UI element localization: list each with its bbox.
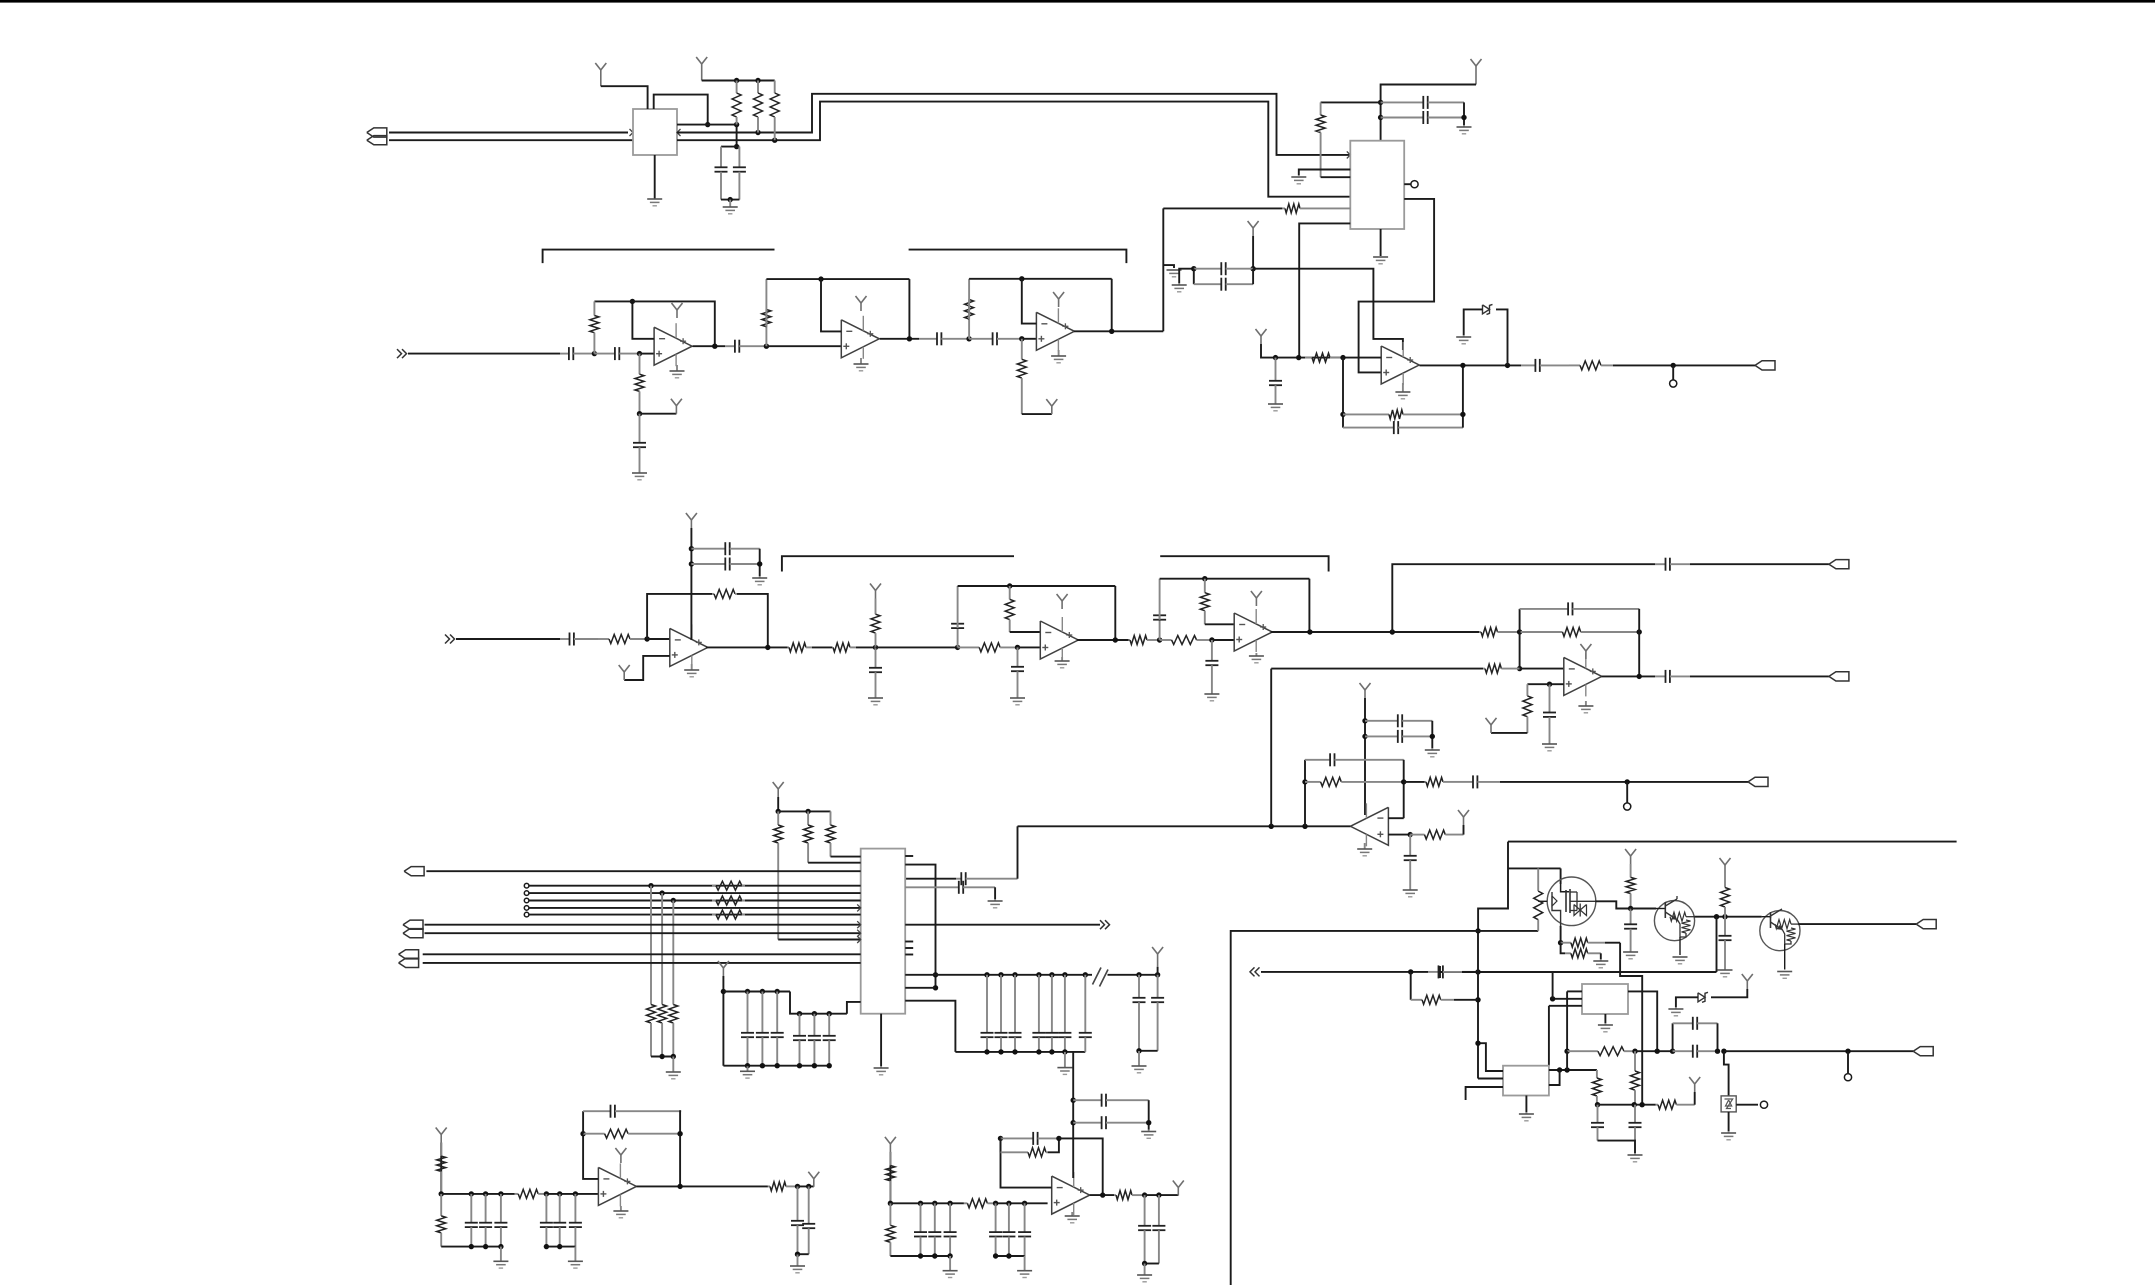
resistor R26 — [1483, 664, 1519, 673]
junction n6 — [644, 636, 649, 641]
junction k2t4 — [1006, 1201, 1011, 1206]
wire op7 plus stub — [1550, 683, 1564, 685]
junction n17 — [1155, 972, 1160, 977]
junction k2b1 — [932, 1253, 937, 1258]
capacitor C18 — [691, 558, 759, 571]
cap bracket up — [1672, 1023, 1674, 1051]
junction R2 on pinB wire — [755, 130, 760, 135]
wire Q2 collector — [1695, 916, 1762, 918]
wire VCC12 to zener — [1711, 989, 1747, 997]
junction pull1 — [648, 883, 653, 888]
wire n12b to op7 minus — [1520, 668, 1564, 670]
ground k1g2 — [568, 1247, 583, 1269]
wire capA loop — [1193, 269, 1195, 285]
stub circle b3 — [524, 898, 529, 903]
junction n15 — [1408, 832, 1413, 837]
resistor R36 — [712, 910, 745, 919]
junction bankL b1 — [745, 1063, 750, 1068]
bankL top rail — [723, 991, 790, 993]
junction k1t3 — [544, 1191, 549, 1196]
capacitor C57 — [791, 1186, 804, 1254]
top border bar — [0, 0, 2155, 3]
wire minus out row — [1404, 781, 1425, 783]
stub TP2 — [1626, 782, 1628, 803]
wire to connector OUT1 — [1613, 364, 1755, 366]
stub U8 p3 — [1549, 1005, 1582, 1007]
junction fb2 minus — [818, 276, 823, 281]
wire fb3 right vert — [1111, 279, 1113, 332]
resistor R52 — [1001, 1148, 1048, 1157]
wire fb3 minus vert — [1022, 279, 1037, 324]
connector J4 pin1 — [399, 950, 419, 959]
power symbol VCC12 — [1742, 974, 1753, 989]
wire n12 to minus row — [1519, 632, 1521, 669]
junction fb9 top — [580, 1131, 585, 1136]
resistor R43 — [1656, 1100, 1695, 1109]
junction C62 join — [1146, 1120, 1151, 1125]
wire row b-d — [1635, 1050, 1673, 1052]
wire U7 to bank vertical — [905, 865, 935, 988]
vert U8 p3 down — [1548, 1006, 1550, 1066]
wire k1 lower rail2 — [546, 1246, 575, 1248]
stub TP3 — [1847, 1051, 1849, 1073]
junction bankR b5 — [1049, 1049, 1054, 1054]
capacitor C59 — [1001, 1132, 1059, 1145]
resistor R12 — [965, 279, 974, 339]
capacitor C29 — [1365, 730, 1432, 743]
wire cap pair bottom rail — [721, 199, 739, 201]
cap bracket down — [1717, 1023, 1719, 1051]
capacitor C22 — [1205, 640, 1218, 692]
junction C3/C4 — [1461, 115, 1466, 120]
resistor R13 — [1017, 339, 1026, 414]
bankL step — [790, 992, 847, 1014]
resistor R20 — [1005, 586, 1014, 632]
wire U7 bottom stub — [880, 1014, 882, 1066]
ground C33 — [1403, 888, 1418, 897]
resistor k1R1 — [437, 1143, 446, 1194]
stub diode box bottom — [1728, 1112, 1730, 1131]
wire fb2 minus vert — [821, 279, 841, 331]
capacitor C20 — [1011, 647, 1024, 696]
junction capA left — [1191, 266, 1196, 271]
power symbol V+ U5C — [1251, 591, 1262, 606]
wire src down2 — [1561, 943, 1565, 954]
junction n5 — [1019, 336, 1024, 341]
junction U11 out — [1100, 1192, 1105, 1197]
wire R16-R17 — [812, 646, 832, 648]
junction U1 pin2/pinA — [705, 122, 710, 127]
ground U2 bottom — [1373, 257, 1388, 264]
power symbol VCC8 — [773, 782, 784, 797]
wire zener loop — [1496, 309, 1508, 365]
junction bankR b4 — [1036, 1049, 1041, 1054]
op-amp U6A — [1564, 653, 1602, 696]
resistor R29 — [1425, 777, 1460, 786]
wire U6A out — [1602, 675, 1656, 677]
wire J1.2 to U1 — [389, 139, 633, 141]
wire U3 output row — [1420, 364, 1522, 366]
capacitor C62 — [1073, 1094, 1149, 1107]
junction fb5 R — [1007, 583, 1012, 588]
resistor R33 — [826, 811, 835, 856]
junction fb1 top — [630, 299, 635, 304]
power symbol VCC13 — [1625, 849, 1636, 864]
wire n14 left — [1527, 683, 1549, 685]
test point TP3 — [1844, 1074, 1851, 1081]
capacitor C5 — [1194, 262, 1253, 275]
resistor R38 — [658, 893, 667, 1056]
ground U5C — [1249, 653, 1264, 663]
capacitor C50 — [1673, 1045, 1718, 1058]
stub U7 974 — [905, 974, 935, 976]
bundle wire b5 — [529, 914, 861, 916]
wire row f to diode box — [1724, 1051, 1729, 1096]
junction bankL t2 — [760, 989, 765, 994]
junction pull rail b — [659, 1054, 664, 1059]
wire capA left branch — [1179, 269, 1194, 283]
test point TP2 — [1624, 803, 1631, 810]
capacitor k2C5 — [1018, 1203, 1031, 1256]
resistor R47 — [1626, 864, 1635, 909]
power symbol V+ U10 — [615, 1148, 626, 1163]
capacitor C56 — [583, 1105, 681, 1118]
resistor k2R2 — [964, 1199, 996, 1208]
vertical link op8-op7minus — [1270, 669, 1272, 827]
jumper / bus entry symbol — [1093, 968, 1109, 987]
capacitor C19 — [869, 647, 882, 696]
wire rail right — [778, 810, 830, 812]
junction rail R1 — [734, 78, 739, 83]
wire fb1 top left — [594, 300, 632, 302]
junction capB right — [757, 561, 762, 566]
net label bracket 1 — [543, 250, 775, 264]
wire R30 to VREF — [1463, 825, 1465, 835]
wire C57/58 join — [798, 1253, 809, 1255]
wire n3 to op2 plus — [766, 345, 841, 347]
wire zener to gnd — [1676, 997, 1698, 1007]
resistor k2R3 — [886, 1203, 895, 1256]
wire U10 o row — [798, 1185, 814, 1187]
power symbol V+ U5B — [1057, 594, 1068, 609]
wire capB right join — [759, 549, 761, 576]
wire R46 to gnd — [1600, 953, 1602, 959]
wire fb4 right — [737, 594, 768, 648]
capacitor C58 — [802, 1186, 815, 1254]
wire k2 lower rail — [890, 1255, 950, 1257]
resistor R28 — [1305, 777, 1404, 786]
junction n13 — [1637, 629, 1642, 634]
junction U6A out — [1637, 674, 1642, 679]
ground U1 — [647, 199, 662, 206]
op-amp U5A — [670, 624, 708, 667]
pin arrow U7 j31 — [857, 921, 861, 928]
test point TP1 — [1670, 380, 1677, 387]
junction k2t2 — [947, 1201, 952, 1206]
wire C62/63 join — [1148, 1100, 1150, 1129]
junction k2t1 — [932, 1201, 937, 1206]
wire U2 outpin circle — [1404, 183, 1410, 185]
capacitor C10 — [560, 347, 594, 360]
wire fb2 right vert — [908, 279, 910, 339]
capacitor C41 — [1079, 975, 1092, 1052]
wire VCC10 down — [722, 976, 724, 1066]
wire R6 to minus — [1343, 357, 1381, 359]
ground capB — [752, 576, 767, 585]
pin arrow U7 r31 — [857, 936, 861, 943]
vertical gate net — [1477, 931, 1479, 1079]
junction k2t3 — [993, 1201, 998, 1206]
power symbol VCC14 — [1720, 858, 1731, 873]
wire VCC4 to cap pair A — [1252, 236, 1254, 269]
ground U11 — [1065, 1212, 1080, 1223]
wire U4B out — [880, 338, 919, 340]
wire zener to ground — [1464, 309, 1483, 335]
junction bankR t3 — [1012, 972, 1017, 977]
capacitor C54 — [1719, 917, 1732, 968]
ground pull rail — [666, 1057, 681, 1079]
wire VCC1 to U1 top pin — [601, 86, 648, 109]
junction k1t2 — [498, 1191, 503, 1196]
wire pull rail — [651, 1056, 673, 1058]
wire U8 right pin — [1628, 991, 1657, 1051]
wire J4.2 to U7 — [423, 962, 861, 964]
power symbol V+ U6A — [1580, 644, 1591, 659]
wire VCC7 down — [1364, 698, 1366, 815]
wire R4 to U2 pin — [1321, 176, 1351, 178]
wire fb10 minus — [1001, 1138, 1052, 1187]
bankR bottom rail — [955, 1051, 1085, 1053]
wire VCC5 down — [690, 528, 692, 640]
junction Q2c a — [1714, 914, 1719, 919]
connector J1 pin 1 (left input pair) — [367, 128, 387, 137]
junction x1478 a — [1475, 997, 1480, 1002]
wire C27 to OUT3 — [1690, 675, 1829, 677]
junction bankL b4 — [797, 1063, 802, 1068]
junction capC row1 — [1362, 718, 1367, 723]
bankL bottom rail — [723, 1065, 829, 1067]
junction bankR t6 — [1062, 972, 1067, 977]
junction bankR t5 — [1049, 972, 1054, 977]
wire R33 to U7 — [831, 856, 861, 858]
resistor R51 — [768, 1182, 798, 1191]
wire fb10 to out — [1059, 1138, 1103, 1195]
junction bankL b5 — [812, 1063, 817, 1068]
junction n10 — [1157, 637, 1162, 642]
resistor R10 — [635, 354, 644, 414]
stub U9 p3 — [1466, 1087, 1503, 1100]
power symbol VREF1 — [1256, 329, 1267, 344]
junction fb8 left R — [1302, 779, 1307, 784]
wire k2 row — [890, 1202, 964, 1204]
capacitor C26 — [1543, 684, 1556, 742]
power symbol VCC3 — [1471, 59, 1482, 85]
junction k1t0 — [469, 1191, 474, 1196]
wire Q3 collector to OUT6 — [1798, 923, 1916, 925]
junction row c — [1655, 1049, 1660, 1054]
row2 wire — [1598, 1104, 1656, 1106]
vert Q2c to rail — [1716, 917, 1718, 972]
connector J2 — [404, 867, 424, 876]
capacitor C23 — [1153, 579, 1166, 640]
wire n11 to op6 plus — [1212, 639, 1234, 641]
ground D3 — [1668, 1007, 1683, 1016]
junction fb10 tl — [998, 1136, 1003, 1141]
junction C60 gnd — [1142, 1261, 1147, 1266]
resistor R2 — [754, 81, 763, 133]
wire fb9 right vert — [680, 1111, 681, 1186]
wire R45 corner — [1605, 942, 1620, 944]
vert IN3 down — [1410, 972, 1412, 1000]
stub U7 pin r2 — [905, 941, 913, 943]
junction bankR t4 — [1036, 972, 1041, 977]
junction k2b0 — [918, 1253, 923, 1258]
wire fb7 right vert — [1638, 609, 1640, 677]
junction supply row1 — [1071, 1098, 1076, 1103]
stub U8 bottom — [1604, 1014, 1606, 1023]
capacitor k1C4 — [553, 1194, 566, 1247]
ground U2 pin3 — [1291, 177, 1306, 184]
wire Umain pin to cap row — [905, 878, 956, 880]
junction row e — [1715, 1049, 1720, 1054]
net label bracket 4 — [1160, 556, 1328, 571]
wire cap pair top rail — [721, 146, 739, 148]
wire IN3 — [1261, 971, 1428, 973]
junction fb9 R right — [677, 1131, 682, 1136]
net wire U1 pinC long route to U2 — [677, 102, 1350, 197]
junction row d — [1670, 1049, 1675, 1054]
junction U10 o1 — [795, 1184, 800, 1189]
power symbol VCC1 — [595, 63, 606, 86]
ground U9 — [1519, 1112, 1534, 1121]
rail 972 end bar — [1439, 966, 1441, 978]
op-amp U11 — [1052, 1172, 1090, 1215]
wire n2b to VREF — [640, 413, 677, 415]
wire R23 to op6 minus — [1205, 623, 1234, 625]
power symbol VCC5 — [686, 513, 697, 528]
wire to Q2 base — [1631, 908, 1656, 910]
resistor R22 — [1160, 636, 1212, 645]
junction k2b2 — [947, 1253, 952, 1258]
wire J1.1 to U1 — [389, 132, 628, 134]
wire n5 to op3 plus — [1022, 338, 1037, 340]
wire U10 out — [636, 1185, 768, 1187]
junction bankR top b — [933, 985, 938, 990]
wire k2 row2 — [996, 1202, 1048, 1204]
junction bankL t4 — [797, 1011, 802, 1016]
pin arrow U7 j32 — [857, 930, 861, 937]
stub U9 p1 — [1478, 1043, 1503, 1071]
junction rail808 — [805, 809, 810, 814]
stub U8 p2 — [1553, 998, 1582, 1000]
capacitor C48 — [808, 1014, 821, 1066]
junction n12b — [1517, 666, 1522, 671]
wire n6 to op4 minus — [647, 638, 670, 640]
junction U11 o2 — [1156, 1192, 1161, 1197]
junction R1/C1 node — [734, 144, 739, 149]
op-amp U3 — [1381, 342, 1419, 385]
junction U11 o1 — [1142, 1192, 1147, 1197]
power symbol V U11o — [1173, 1181, 1184, 1196]
junction U10 o2 — [806, 1184, 811, 1189]
wire U7 out to >> — [905, 924, 1100, 926]
stub circle b4 — [524, 906, 529, 911]
wire op8 plus stub — [1388, 834, 1410, 836]
power symbol VREF4 — [619, 665, 630, 680]
capacitor k2C4 — [1002, 1203, 1015, 1256]
stub circle b2 — [524, 891, 529, 896]
wire U2 pin6 down to opampA node — [1299, 223, 1350, 357]
capacitor C1 — [715, 147, 728, 200]
junction U4C out — [1109, 329, 1114, 334]
junction U10 out — [677, 1184, 682, 1189]
junction capB row1 — [689, 546, 694, 551]
wire C42/C43 join — [1139, 1050, 1158, 1052]
wire k2 lower rail2 — [996, 1255, 1025, 1257]
capacitor C47 — [793, 1014, 806, 1066]
junction capC row2 — [1362, 734, 1367, 739]
junction R3 on pinC wire — [772, 138, 777, 143]
wire mosfet source to U8 vert — [1620, 943, 1642, 1105]
ground U8 — [1598, 1023, 1613, 1032]
ground C54 — [1718, 968, 1733, 977]
wire tap to OUT2 — [1392, 564, 1655, 632]
ground bankL — [740, 1066, 755, 1078]
junction n9 — [1015, 645, 1020, 650]
wire k1 lower rail — [441, 1246, 501, 1248]
wire cap row to op8 row — [1017, 826, 1019, 878]
wire J3.1 to U7 — [425, 924, 861, 926]
input arrow IN2 — [445, 635, 455, 644]
resistor R34 — [712, 881, 745, 890]
pin arrow U7 b4 — [857, 904, 861, 911]
junction row a — [1564, 1049, 1569, 1054]
capacitor C21 — [951, 586, 964, 647]
input arrow IN3 — [1250, 967, 1260, 976]
capacitor C12 — [725, 340, 766, 353]
wire fb1 top right — [632, 301, 714, 346]
connector J4 pin2 — [399, 958, 419, 967]
capacitor C55 — [1428, 965, 1462, 978]
ground k2g1 — [943, 1256, 958, 1278]
capacitor C39 — [1045, 975, 1058, 1052]
junction n8 — [955, 645, 960, 650]
wire fb6 top — [1160, 578, 1310, 580]
junction k1t1 — [483, 1191, 488, 1196]
ground D1 — [1456, 335, 1471, 344]
power symbol V U10o — [808, 1172, 819, 1187]
capacitor C35 — [981, 975, 994, 1052]
resistor R1 — [732, 81, 741, 125]
junction feedback node A — [1340, 355, 1345, 360]
capacitor C42 — [1133, 975, 1146, 1051]
junction bankR b3 — [1012, 1049, 1017, 1054]
stub TP1 — [1672, 365, 1674, 379]
wire fb6 right vert — [1308, 579, 1310, 632]
wire R31 to U7 — [778, 939, 861, 941]
capacitor k1C5 — [569, 1194, 582, 1247]
transistor Q2 (digital NPN) — [1654, 896, 1694, 955]
capacitor C46 — [771, 992, 784, 1066]
power symbol k1V — [436, 1128, 447, 1143]
connector J3 pin2 — [403, 929, 423, 938]
resistor R31 — [774, 811, 783, 939]
junction TP3 — [1845, 1049, 1850, 1054]
junction fb10 tr — [1056, 1136, 1061, 1141]
wire n2 to op1 plus — [640, 353, 655, 355]
capacitor C45 — [756, 992, 769, 1066]
wire R17 to n7 — [856, 646, 876, 648]
